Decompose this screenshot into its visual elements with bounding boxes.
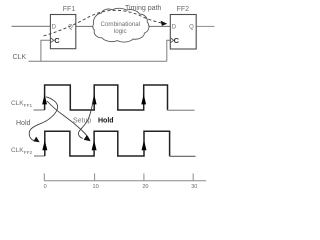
svg-text:FF1: FF1 (63, 6, 76, 13)
time axis tick 20 (143, 173, 145, 180)
time axis tick 30 (192, 173, 194, 180)
svg-text:D: D (172, 24, 177, 30)
waveform CLKFF1 trace (34, 109, 45, 111)
hold annotation curve t=10 (CLKFF1 edge loop to CLKFF2 edge) (78, 101, 93, 139)
svg-text:Timing path: Timing path (125, 5, 161, 12)
hold annotation arrowhead t=0 (33, 137, 39, 143)
clock edge arrow CLKFF1 rising edge t=20 (141, 94, 146, 104)
clock edge arrow CLKFF2 rising edge t=0 (42, 140, 47, 150)
svg-text:CLK: CLK (13, 54, 27, 61)
hold annotation curve t=0 (CLKFF1 edge to CLKFF2 edge) (29, 97, 57, 141)
wire CLK branch to FF2 clock pin (167, 40, 171, 61)
wire CLK branch to FF1 clock pin (41, 40, 51, 61)
svg-text:FF2: FF2 (177, 6, 190, 13)
svg-text:Combinational: Combinational (101, 21, 141, 28)
timing path arrowhead at FF2 D (161, 21, 168, 26)
clock edge arrow CLKFF2 rising edge t=10 (92, 140, 97, 150)
svg-text:Hold: Hold (98, 118, 114, 125)
combinational logic cloud U1 (93, 8, 149, 42)
wire FF1 Q to combinational logic (76, 25, 96, 27)
waveform CLKFF2 trace (34, 155, 45, 157)
svg-text:30: 30 (191, 184, 197, 190)
clock edge arrow CLKFF1 rising edge t=10 (92, 94, 97, 104)
flip-flop FF1 body (50, 15, 75, 49)
svg-text:20: 20 (142, 184, 148, 190)
svg-text:Q: Q (68, 24, 73, 30)
wire D input to FF1 (12, 25, 51, 27)
wire combinational logic to FF2 D (147, 25, 171, 27)
svg-text:Hold: Hold (16, 120, 31, 127)
svg-text:D: D (52, 24, 57, 30)
clock triangle of FF1 (50, 38, 53, 43)
wire FF2 Q output (196, 25, 214, 27)
time axis line (44, 180, 206, 182)
svg-text:Q: Q (189, 24, 194, 30)
timing path dashed arc (44, 10, 163, 36)
clock edge arrow CLKFF2 rising edge t=20 (142, 140, 147, 150)
svg-text:logic: logic (114, 28, 127, 35)
setup annotation curve (CLKFF1 t=0 edge to CLKFF2 t=10 edge) (47, 101, 89, 138)
hold annotation arrowhead t=10 (84, 135, 90, 140)
wire CLK net horizontal (29, 60, 167, 62)
clock edge arrow CLKFF1 rising edge t=0 (42, 94, 47, 104)
svg-text:C: C (54, 36, 60, 45)
svg-text:10: 10 (93, 184, 99, 190)
clock triangle of FF2 (170, 38, 173, 43)
setup annotation arrowhead (84, 135, 91, 141)
time axis tick 10 (94, 173, 96, 180)
svg-text:C: C (174, 36, 180, 45)
time axis tick 0 (43, 173, 45, 180)
svg-text:0: 0 (44, 184, 47, 190)
flip-flop FF2 body (170, 15, 196, 50)
